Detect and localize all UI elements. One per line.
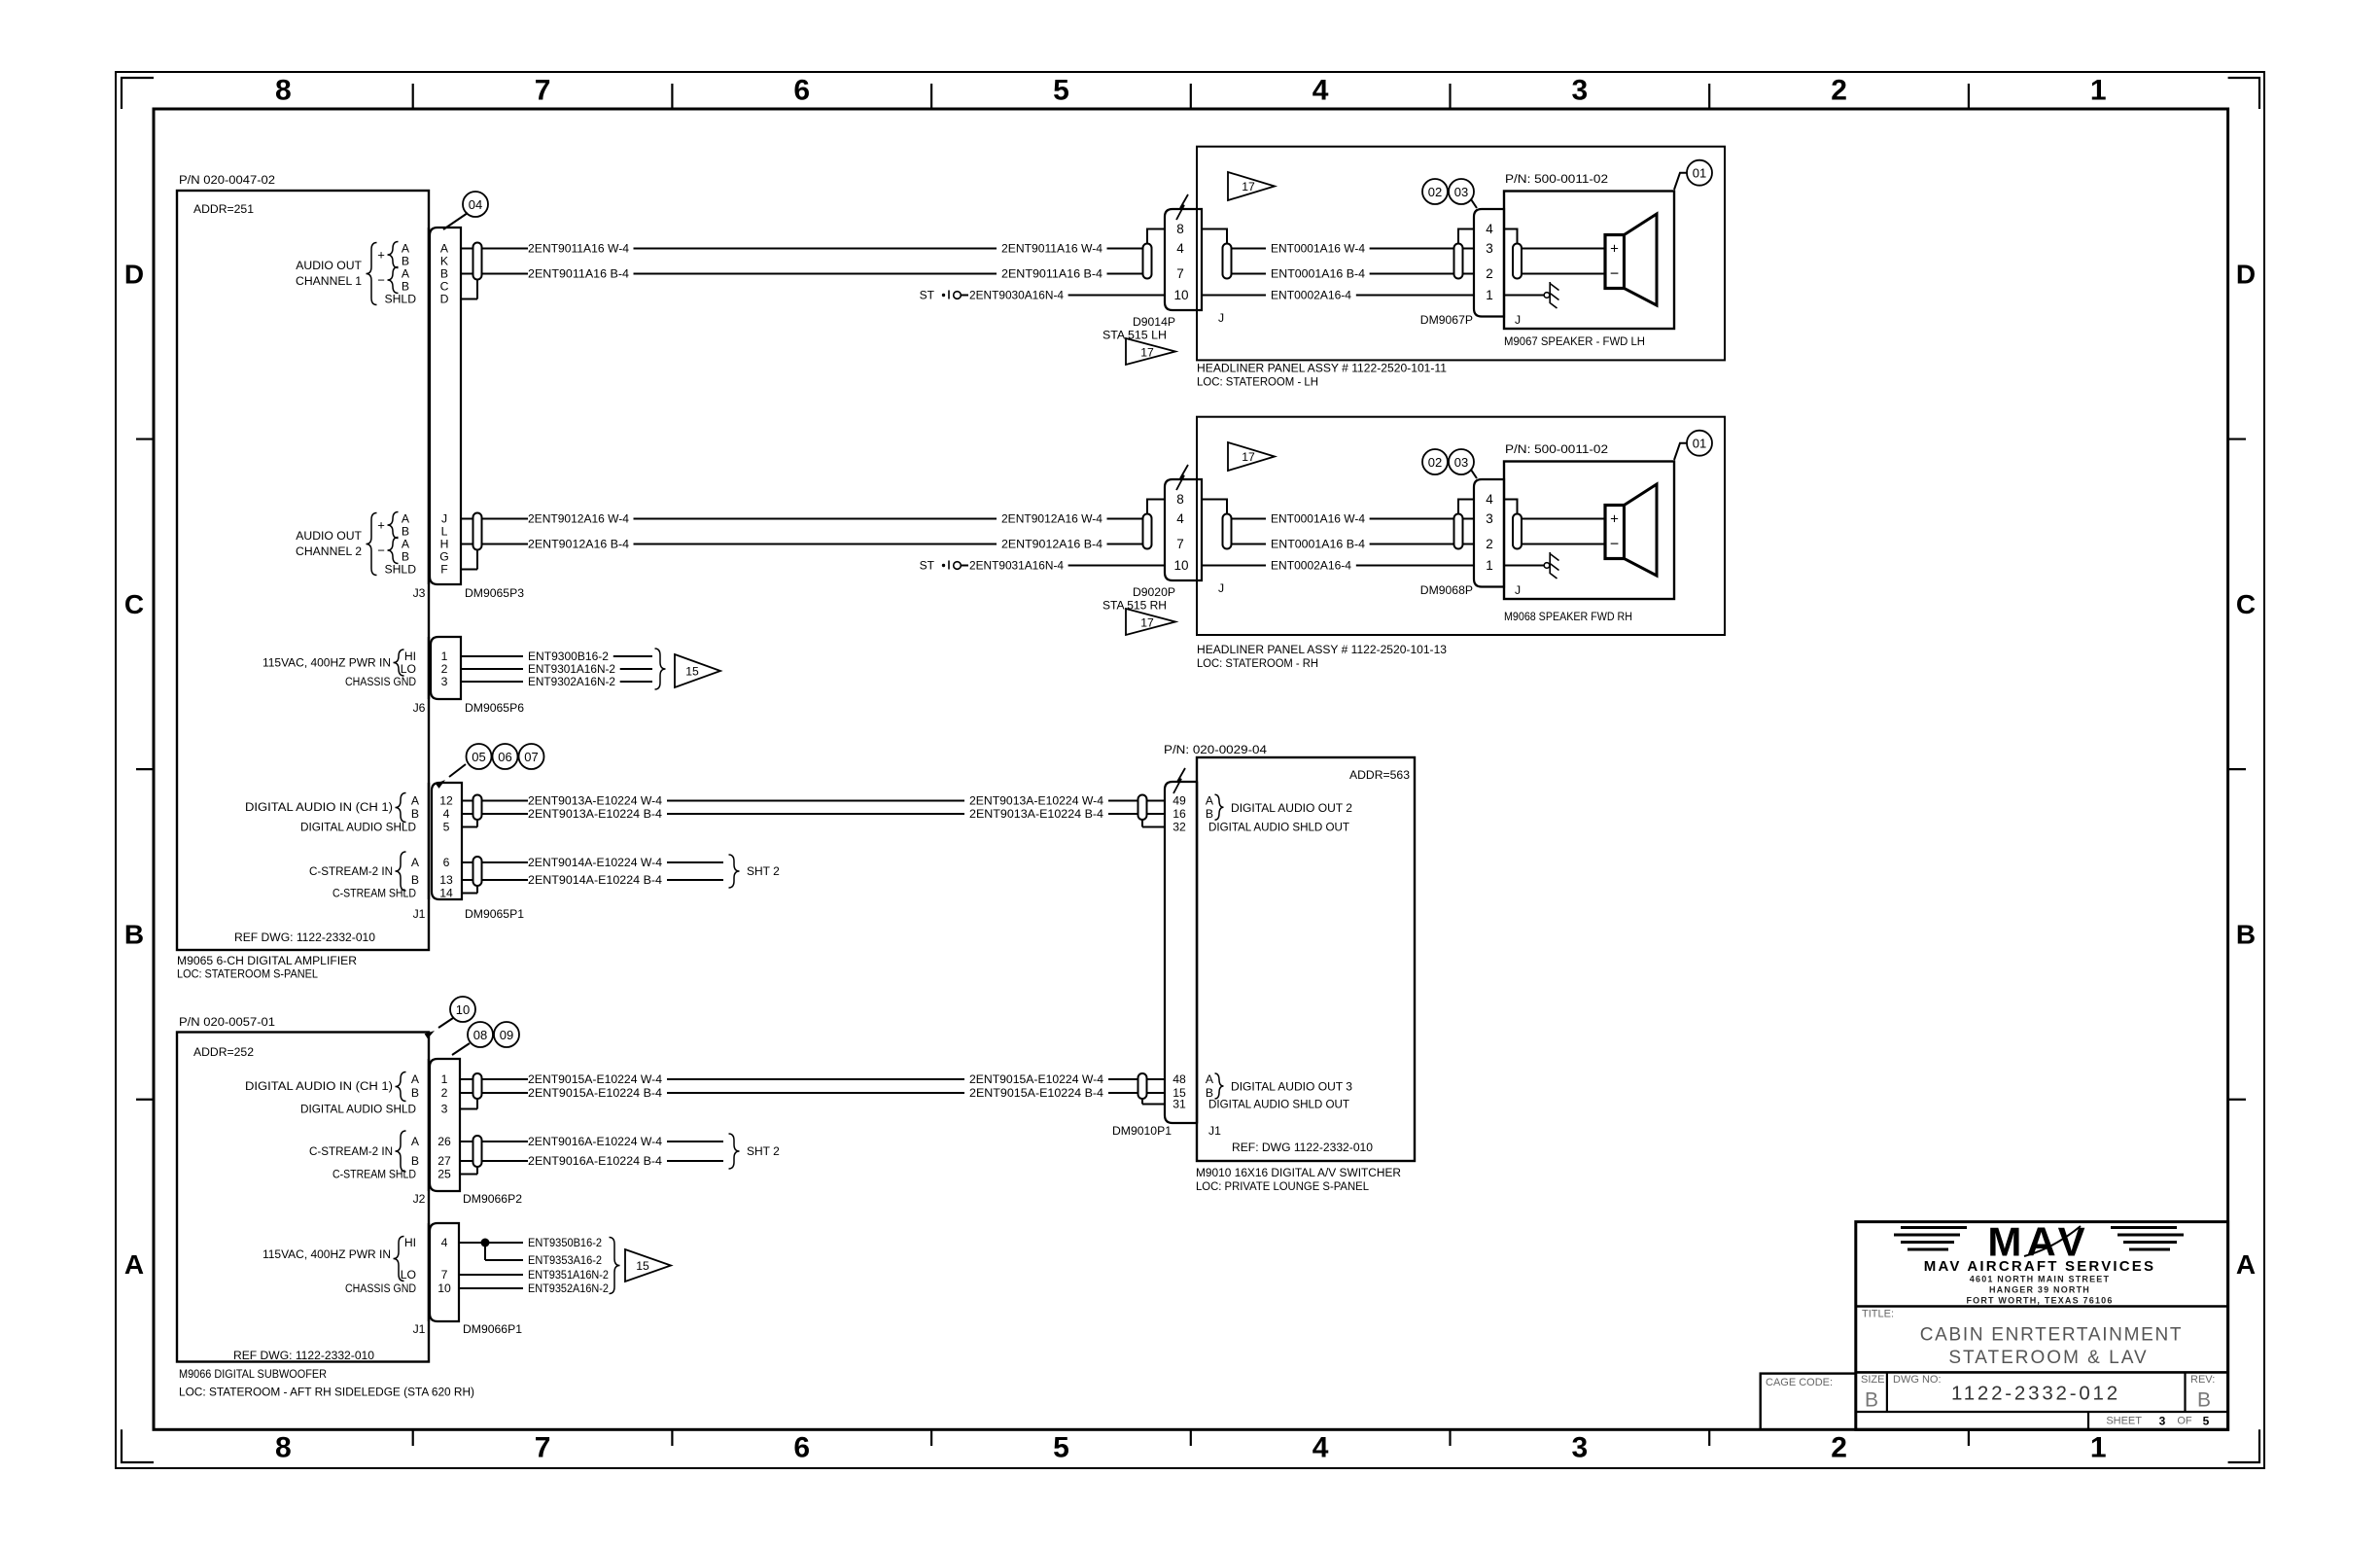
svg-text:C-STREAM-2 IN: C-STREAM-2 IN bbox=[309, 864, 393, 878]
svg-text:J6: J6 bbox=[413, 701, 426, 715]
svg-text:J3: J3 bbox=[413, 586, 426, 600]
svg-text:ADDR=251: ADDR=251 bbox=[193, 202, 254, 216]
svg-text:A: A bbox=[402, 242, 410, 256]
svg-text:A: A bbox=[124, 1249, 144, 1280]
svg-text:B: B bbox=[1865, 1389, 1878, 1412]
svg-text:2ENT9013A-E10224 B-4: 2ENT9013A-E10224 B-4 bbox=[528, 807, 662, 821]
svg-text:DIGITAL AUDIO IN (CH 1): DIGITAL AUDIO IN (CH 1) bbox=[245, 800, 393, 814]
svg-text:STA 515 LH: STA 515 LH bbox=[1102, 329, 1167, 342]
svg-text:B: B bbox=[411, 807, 419, 821]
svg-text:B: B bbox=[411, 1154, 419, 1168]
svg-text:6: 6 bbox=[793, 75, 810, 107]
svg-text:B: B bbox=[411, 1086, 419, 1100]
svg-text:LOC: STATEROOM - AFT RH SIDELE: LOC: STATEROOM - AFT RH SIDELEDGE (STA 6… bbox=[179, 1386, 474, 1399]
svg-text:DIGITAL AUDIO IN (CH 1): DIGITAL AUDIO IN (CH 1) bbox=[245, 1079, 393, 1093]
svg-text:3: 3 bbox=[441, 1103, 448, 1116]
svg-text:2ENT9015A-E10224 B-4: 2ENT9015A-E10224 B-4 bbox=[969, 1086, 1103, 1100]
svg-text:16: 16 bbox=[1172, 807, 1186, 821]
svg-text:A: A bbox=[402, 512, 410, 526]
svg-text:3: 3 bbox=[441, 675, 448, 688]
svg-text:3: 3 bbox=[1486, 511, 1493, 526]
svg-text:CHANNEL 1: CHANNEL 1 bbox=[296, 274, 362, 288]
svg-text:CAGE CODE:: CAGE CODE: bbox=[1766, 1377, 1833, 1388]
svg-text:SHT 2: SHT 2 bbox=[747, 1144, 780, 1158]
svg-text:25: 25 bbox=[437, 1168, 451, 1181]
svg-text:G: G bbox=[439, 550, 448, 564]
svg-text:2ENT9015A-E10224 B-4: 2ENT9015A-E10224 B-4 bbox=[528, 1086, 662, 1100]
svg-text:4: 4 bbox=[441, 1236, 448, 1249]
svg-text:14: 14 bbox=[439, 887, 453, 900]
svg-text:2ENT9016A-E10224 W-4: 2ENT9016A-E10224 W-4 bbox=[528, 1135, 662, 1148]
svg-text:STATEROOM & LAV: STATEROOM & LAV bbox=[1948, 1348, 2148, 1368]
svg-text:SHT 2: SHT 2 bbox=[747, 864, 780, 878]
svg-text:AUDIO OUT: AUDIO OUT bbox=[296, 259, 362, 272]
svg-text:H: H bbox=[440, 538, 449, 551]
svg-text:6: 6 bbox=[443, 856, 450, 869]
svg-text:C-STREAM SHLD: C-STREAM SHLD bbox=[332, 1168, 416, 1181]
svg-text:DIGITAL AUDIO SHLD: DIGITAL AUDIO SHLD bbox=[300, 1103, 416, 1116]
svg-text:A: A bbox=[440, 242, 449, 256]
svg-text:1: 1 bbox=[1486, 558, 1493, 573]
svg-text:2ENT9031A16N-4: 2ENT9031A16N-4 bbox=[969, 559, 1064, 573]
svg-text:17: 17 bbox=[1140, 346, 1154, 360]
svg-text:+: + bbox=[377, 248, 385, 263]
svg-text:4: 4 bbox=[1486, 222, 1493, 236]
svg-text:+: + bbox=[377, 518, 385, 533]
svg-text:8: 8 bbox=[1176, 492, 1184, 507]
svg-text:REF: DWG 1122-2332-010: REF: DWG 1122-2332-010 bbox=[1232, 1141, 1373, 1154]
svg-text:HI: HI bbox=[404, 1236, 416, 1249]
svg-text:2ENT9013A-E10224 W-4: 2ENT9013A-E10224 W-4 bbox=[969, 794, 1103, 808]
svg-text:B: B bbox=[402, 525, 409, 539]
svg-text:8: 8 bbox=[275, 1432, 292, 1464]
svg-text:J1: J1 bbox=[413, 907, 426, 921]
svg-text:STA 515 RH: STA 515 RH bbox=[1102, 599, 1167, 613]
svg-text:8: 8 bbox=[275, 75, 292, 107]
svg-text:2ENT9030A16N-4: 2ENT9030A16N-4 bbox=[969, 289, 1064, 302]
svg-text:10: 10 bbox=[437, 1282, 451, 1295]
svg-text:ENT0001A16 B-4: ENT0001A16 B-4 bbox=[1271, 538, 1365, 551]
svg-text:08: 08 bbox=[473, 1028, 487, 1042]
svg-text:3: 3 bbox=[1486, 241, 1493, 256]
svg-text:06: 06 bbox=[498, 750, 511, 764]
svg-text:1: 1 bbox=[441, 650, 448, 663]
svg-text:7: 7 bbox=[1176, 537, 1184, 551]
svg-text:2ENT9016A-E10224 B-4: 2ENT9016A-E10224 B-4 bbox=[528, 1154, 662, 1168]
svg-text:B: B bbox=[440, 267, 448, 281]
svg-text:HEADLINER PANEL ASSY # 1122-25: HEADLINER PANEL ASSY # 1122-2520-101-13 bbox=[1197, 643, 1447, 656]
svg-text:32: 32 bbox=[1172, 821, 1186, 834]
svg-text:−: − bbox=[1610, 537, 1619, 553]
svg-text:LOC: STATEROOM - LH: LOC: STATEROOM - LH bbox=[1197, 375, 1318, 389]
svg-text:B: B bbox=[402, 280, 409, 294]
svg-text:4: 4 bbox=[1176, 241, 1184, 256]
svg-text:3: 3 bbox=[1572, 75, 1589, 107]
svg-text:D: D bbox=[440, 293, 449, 306]
svg-text:P/N: 500-0011-02: P/N: 500-0011-02 bbox=[1505, 172, 1608, 186]
svg-text:3: 3 bbox=[2159, 1415, 2166, 1428]
svg-text:B: B bbox=[402, 255, 409, 268]
svg-text:J: J bbox=[1515, 313, 1521, 327]
svg-text:2: 2 bbox=[441, 1086, 448, 1100]
svg-text:DWG NO:: DWG NO: bbox=[1893, 1374, 1942, 1386]
svg-text:A: A bbox=[1206, 794, 1214, 808]
svg-text:ENT0001A16 W-4: ENT0001A16 W-4 bbox=[1271, 512, 1365, 526]
svg-text:J: J bbox=[1515, 583, 1521, 597]
svg-text:L: L bbox=[441, 525, 448, 539]
svg-text:HANGER 39 NORTH: HANGER 39 NORTH bbox=[1989, 1285, 2090, 1295]
svg-text:1: 1 bbox=[2090, 75, 2107, 107]
svg-text:31: 31 bbox=[1172, 1098, 1186, 1111]
svg-text:17: 17 bbox=[1242, 180, 1255, 193]
svg-text:2: 2 bbox=[1486, 266, 1493, 281]
svg-text:P/N 020-0057-01: P/N 020-0057-01 bbox=[179, 1015, 275, 1029]
svg-text:J2: J2 bbox=[413, 1192, 426, 1206]
svg-text:DM9067P: DM9067P bbox=[1420, 313, 1473, 327]
svg-text:P/N: 020-0029-04: P/N: 020-0029-04 bbox=[1164, 743, 1267, 756]
svg-text:ENT9351A16N-2: ENT9351A16N-2 bbox=[528, 1268, 609, 1282]
svg-text:10: 10 bbox=[456, 1002, 470, 1017]
svg-text:2ENT9014A-E10224 W-4: 2ENT9014A-E10224 W-4 bbox=[528, 856, 662, 869]
svg-text:B: B bbox=[124, 919, 144, 949]
svg-text:7: 7 bbox=[1176, 266, 1184, 281]
svg-text:J: J bbox=[1218, 581, 1224, 595]
svg-text:A: A bbox=[1206, 1072, 1214, 1086]
svg-text:7: 7 bbox=[441, 1268, 448, 1282]
svg-text:A: A bbox=[411, 856, 420, 869]
svg-text:2ENT9012A16 B-4: 2ENT9012A16 B-4 bbox=[1001, 538, 1102, 551]
svg-text:A: A bbox=[2236, 1249, 2256, 1280]
svg-text:C-STREAM SHLD: C-STREAM SHLD bbox=[332, 887, 416, 900]
svg-text:ENT0001A16 B-4: ENT0001A16 B-4 bbox=[1271, 267, 1365, 281]
svg-text:DM9065P1: DM9065P1 bbox=[465, 907, 524, 921]
svg-text:02: 02 bbox=[1428, 455, 1442, 470]
svg-text:CHANNEL 2: CHANNEL 2 bbox=[296, 544, 362, 558]
svg-text:2ENT9011A16 W-4: 2ENT9011A16 W-4 bbox=[1001, 242, 1102, 256]
svg-text:7: 7 bbox=[535, 1432, 551, 1464]
svg-text:A: A bbox=[411, 794, 420, 808]
svg-text:C: C bbox=[440, 280, 449, 294]
svg-text:5: 5 bbox=[1053, 75, 1069, 107]
svg-text:LOC: PRIVATE LOUNGE S-PANEL: LOC: PRIVATE LOUNGE S-PANEL bbox=[1196, 1179, 1369, 1193]
svg-text:ADDR=252: ADDR=252 bbox=[193, 1045, 254, 1059]
svg-text:12: 12 bbox=[439, 794, 453, 808]
svg-text:2ENT9012A16 W-4: 2ENT9012A16 W-4 bbox=[1001, 512, 1102, 526]
svg-text:REF DWG: 1122-2332-010: REF DWG: 1122-2332-010 bbox=[233, 1349, 374, 1362]
svg-text:49: 49 bbox=[1172, 794, 1186, 808]
svg-text:+: + bbox=[1610, 511, 1619, 528]
svg-text:LO: LO bbox=[401, 1268, 416, 1282]
svg-text:M9010 16X16 DIGITAL A/V SWITCH: M9010 16X16 DIGITAL A/V SWITCHER bbox=[1196, 1166, 1401, 1179]
svg-text:A: A bbox=[411, 1135, 420, 1148]
svg-text:DIGITAL AUDIO SHLD: DIGITAL AUDIO SHLD bbox=[300, 821, 416, 834]
svg-text:7: 7 bbox=[535, 75, 551, 107]
svg-text:DIGITAL AUDIO SHLD OUT: DIGITAL AUDIO SHLD OUT bbox=[1208, 821, 1350, 834]
svg-text:2ENT9013A-E10224 B-4: 2ENT9013A-E10224 B-4 bbox=[969, 807, 1103, 821]
svg-text:DIGITAL AUDIO SHLD OUT: DIGITAL AUDIO SHLD OUT bbox=[1208, 1098, 1350, 1111]
svg-text:OF: OF bbox=[2177, 1416, 2192, 1427]
svg-text:ENT9300B16-2: ENT9300B16-2 bbox=[528, 650, 609, 663]
svg-text:C: C bbox=[2236, 589, 2256, 619]
svg-text:2: 2 bbox=[1831, 75, 1847, 107]
svg-text:1122-2332-012: 1122-2332-012 bbox=[1951, 1383, 2120, 1405]
svg-text:01: 01 bbox=[1693, 166, 1706, 181]
svg-text:2ENT9013A-E10224 W-4: 2ENT9013A-E10224 W-4 bbox=[528, 794, 662, 808]
svg-text:03: 03 bbox=[1454, 185, 1468, 199]
svg-text:A: A bbox=[402, 538, 410, 551]
svg-text:115VAC, 400HZ PWR IN: 115VAC, 400HZ PWR IN bbox=[262, 656, 391, 670]
svg-text:2ENT9011A16 W-4: 2ENT9011A16 W-4 bbox=[528, 242, 629, 256]
svg-text:05: 05 bbox=[472, 750, 485, 764]
svg-text:2ENT9015A-E10224 W-4: 2ENT9015A-E10224 W-4 bbox=[528, 1072, 662, 1086]
svg-text:ADDR=563: ADDR=563 bbox=[1349, 768, 1410, 782]
svg-text:ENT9352A16N-2: ENT9352A16N-2 bbox=[528, 1282, 609, 1295]
svg-text:ST: ST bbox=[920, 559, 935, 573]
svg-text:P/N: 500-0011-02: P/N: 500-0011-02 bbox=[1505, 442, 1608, 456]
svg-text:CHASSIS GND: CHASSIS GND bbox=[345, 1282, 416, 1295]
svg-text:15: 15 bbox=[685, 665, 699, 679]
svg-text:B: B bbox=[1206, 807, 1213, 821]
svg-text:−: − bbox=[377, 544, 385, 558]
svg-text:D9020P: D9020P bbox=[1133, 585, 1175, 599]
svg-text:04: 04 bbox=[469, 197, 482, 212]
svg-text:ENT9350B16-2: ENT9350B16-2 bbox=[528, 1236, 602, 1249]
svg-text:1: 1 bbox=[2090, 1432, 2107, 1464]
svg-text:J: J bbox=[1218, 311, 1224, 325]
svg-text:10: 10 bbox=[1173, 288, 1188, 302]
svg-text:03: 03 bbox=[1454, 455, 1468, 470]
svg-text:D: D bbox=[124, 259, 144, 289]
svg-text:LO: LO bbox=[401, 662, 416, 676]
svg-text:M9068 SPEAKER FWD RH: M9068 SPEAKER FWD RH bbox=[1504, 610, 1632, 623]
svg-text:5: 5 bbox=[1053, 1432, 1069, 1464]
svg-text:K: K bbox=[440, 255, 448, 268]
svg-text:2ENT9015A-E10224 W-4: 2ENT9015A-E10224 W-4 bbox=[969, 1072, 1103, 1086]
svg-text:ENT9353A16-2: ENT9353A16-2 bbox=[528, 1253, 602, 1267]
svg-text:4: 4 bbox=[1312, 75, 1329, 107]
svg-text:2ENT9011A16 B-4: 2ENT9011A16 B-4 bbox=[1001, 267, 1102, 281]
svg-text:07: 07 bbox=[524, 750, 538, 764]
svg-text:26: 26 bbox=[437, 1135, 451, 1148]
svg-text:4: 4 bbox=[1312, 1432, 1329, 1464]
svg-text:DM9068P: DM9068P bbox=[1420, 583, 1473, 597]
svg-text:ENT9301A16N-2: ENT9301A16N-2 bbox=[528, 662, 615, 676]
svg-text:2: 2 bbox=[441, 662, 448, 676]
svg-text:2ENT9012A16 B-4: 2ENT9012A16 B-4 bbox=[528, 538, 629, 551]
svg-text:48: 48 bbox=[1172, 1072, 1186, 1086]
svg-text:8: 8 bbox=[1176, 222, 1184, 236]
svg-text:B: B bbox=[402, 550, 409, 564]
svg-text:J: J bbox=[441, 512, 447, 526]
svg-text:B: B bbox=[2236, 919, 2256, 949]
svg-text:−: − bbox=[1610, 266, 1619, 283]
svg-text:ST: ST bbox=[920, 289, 935, 302]
svg-text:4601 NORTH MAIN STREET: 4601 NORTH MAIN STREET bbox=[1970, 1275, 2110, 1284]
svg-text:4: 4 bbox=[1176, 511, 1184, 526]
svg-text:B: B bbox=[2197, 1389, 2211, 1412]
svg-text:SIZE: SIZE bbox=[1861, 1374, 1884, 1386]
svg-text:15: 15 bbox=[636, 1259, 649, 1273]
svg-text:DIGITAL AUDIO OUT 2: DIGITAL AUDIO OUT 2 bbox=[1231, 801, 1352, 815]
svg-text:SHEET: SHEET bbox=[2106, 1416, 2142, 1427]
svg-text:B: B bbox=[411, 873, 419, 887]
svg-text:−: − bbox=[377, 273, 385, 288]
svg-text:17: 17 bbox=[1242, 450, 1255, 464]
svg-text:DM9065P6: DM9065P6 bbox=[465, 701, 524, 715]
svg-text:LOC: STATEROOM - RH: LOC: STATEROOM - RH bbox=[1197, 656, 1318, 670]
svg-text:MAV AIRCRAFT SERVICES: MAV AIRCRAFT SERVICES bbox=[1924, 1258, 2155, 1275]
svg-text:4: 4 bbox=[443, 807, 450, 821]
svg-text:09: 09 bbox=[500, 1028, 513, 1042]
svg-text:DM9065P3: DM9065P3 bbox=[465, 586, 524, 600]
svg-text:A: A bbox=[411, 1072, 420, 1086]
svg-text:A: A bbox=[402, 267, 410, 281]
svg-text:ENT0002A16-4: ENT0002A16-4 bbox=[1271, 289, 1351, 302]
svg-text:SHLD: SHLD bbox=[384, 563, 416, 577]
svg-text:AUDIO OUT: AUDIO OUT bbox=[296, 529, 362, 543]
svg-text:F: F bbox=[440, 563, 447, 577]
svg-text:FORT WORTH, TEXAS 76106: FORT WORTH, TEXAS 76106 bbox=[1966, 1296, 2113, 1306]
svg-text:ENT0001A16 W-4: ENT0001A16 W-4 bbox=[1271, 242, 1365, 256]
svg-text:D: D bbox=[2236, 259, 2256, 289]
svg-text:10: 10 bbox=[1173, 558, 1188, 573]
svg-text:DM9066P1: DM9066P1 bbox=[463, 1322, 522, 1336]
svg-text:2: 2 bbox=[1831, 1432, 1847, 1464]
svg-text:CABIN ENRTERTAINMENT: CABIN ENRTERTAINMENT bbox=[1920, 1325, 2183, 1346]
svg-text:C: C bbox=[124, 589, 144, 619]
svg-text:5: 5 bbox=[443, 821, 450, 834]
svg-text:DIGITAL AUDIO OUT 3: DIGITAL AUDIO OUT 3 bbox=[1231, 1080, 1352, 1094]
svg-text:2ENT9011A16 B-4: 2ENT9011A16 B-4 bbox=[528, 267, 629, 281]
svg-text:+: + bbox=[1610, 241, 1619, 258]
svg-text:2: 2 bbox=[1486, 537, 1493, 551]
svg-text:2ENT9014A-E10224 B-4: 2ENT9014A-E10224 B-4 bbox=[528, 873, 662, 887]
svg-text:4: 4 bbox=[1486, 492, 1493, 507]
svg-text:REF DWG: 1122-2332-010: REF DWG: 1122-2332-010 bbox=[234, 931, 375, 944]
svg-text:6: 6 bbox=[793, 1432, 810, 1464]
svg-text:5: 5 bbox=[2203, 1415, 2210, 1428]
svg-text:13: 13 bbox=[439, 873, 453, 887]
svg-text:SHLD: SHLD bbox=[384, 293, 416, 306]
svg-text:HEADLINER PANEL ASSY # 1122-25: HEADLINER PANEL ASSY # 1122-2520-101-11 bbox=[1197, 362, 1447, 375]
svg-text:M9067 SPEAKER - FWD LH: M9067 SPEAKER - FWD LH bbox=[1504, 334, 1645, 348]
svg-text:TITLE:: TITLE: bbox=[1862, 1309, 1894, 1320]
svg-text:27: 27 bbox=[437, 1154, 451, 1168]
svg-text:CHASSIS GND: CHASSIS GND bbox=[345, 675, 416, 688]
svg-text:ENT0002A16-4: ENT0002A16-4 bbox=[1271, 559, 1351, 573]
svg-text:M9065 6-CH DIGITAL AMPLIFIER: M9065 6-CH DIGITAL AMPLIFIER bbox=[177, 954, 357, 967]
svg-text:01: 01 bbox=[1693, 437, 1706, 451]
svg-text:1: 1 bbox=[1486, 288, 1493, 302]
svg-text:1: 1 bbox=[441, 1072, 448, 1086]
svg-text:ENT9302A16N-2: ENT9302A16N-2 bbox=[528, 675, 615, 688]
svg-text:3: 3 bbox=[1572, 1432, 1589, 1464]
svg-text:02: 02 bbox=[1428, 185, 1442, 199]
svg-text:DM9066P2: DM9066P2 bbox=[463, 1192, 522, 1206]
svg-text:C-STREAM-2 IN: C-STREAM-2 IN bbox=[309, 1144, 393, 1158]
svg-text:115VAC, 400HZ PWR IN: 115VAC, 400HZ PWR IN bbox=[262, 1247, 391, 1261]
svg-text:J1: J1 bbox=[1208, 1124, 1221, 1138]
svg-text:2ENT9012A16 W-4: 2ENT9012A16 W-4 bbox=[528, 512, 629, 526]
svg-text:J1: J1 bbox=[413, 1322, 426, 1336]
svg-text:REV:: REV: bbox=[2190, 1374, 2215, 1386]
svg-text:M9066 DIGITAL SUBWOOFER: M9066 DIGITAL SUBWOOFER bbox=[179, 1367, 327, 1381]
svg-text:LOC: STATEROOM S-PANEL: LOC: STATEROOM S-PANEL bbox=[177, 967, 318, 981]
svg-text:17: 17 bbox=[1140, 616, 1154, 630]
svg-text:D9014P: D9014P bbox=[1133, 315, 1175, 329]
svg-text:P/N 020-0047-02: P/N 020-0047-02 bbox=[179, 173, 275, 187]
svg-text:DM9010P1: DM9010P1 bbox=[1112, 1124, 1172, 1138]
svg-text:HI: HI bbox=[404, 650, 416, 663]
